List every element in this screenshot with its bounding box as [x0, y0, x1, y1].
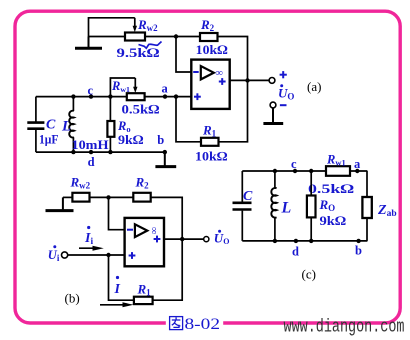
svg-text:www.diangon.com: www.diangon.com: [284, 317, 405, 337]
svg-text:d: d: [88, 155, 95, 169]
junction Ro bottom (c): [309, 239, 313, 243]
svg-text:I: I: [114, 282, 121, 297]
capacitor C: [27, 97, 44, 153]
caption 图8-02: [170, 316, 220, 333]
wire op-amp output: [230, 79, 270, 81]
svg-text:9kΩ: 9kΩ: [320, 213, 347, 228]
svg-text:b: b: [157, 133, 164, 147]
node c: [89, 94, 93, 98]
svg-text:c: c: [88, 84, 94, 98]
wire output (b): [164, 238, 203, 240]
op-amp U2: [125, 218, 164, 266]
wire bottom LC row: [36, 151, 165, 153]
svg-text:d: d: [292, 245, 299, 259]
resistor Ro: [107, 97, 114, 153]
wire to inverting input (b): [109, 197, 125, 229]
resistor Rw1 (c): [326, 166, 350, 176]
junction L top (c): [273, 169, 277, 173]
label -: [280, 104, 287, 106]
terminal uO (b): [204, 237, 209, 242]
resistor R1: [201, 138, 219, 146]
ground (output): [263, 108, 283, 124]
junction feedback/output: [245, 78, 249, 82]
terminal - output: [270, 102, 276, 108]
wire ui to + input: [68, 254, 125, 256]
potentiometer Rw1: [110, 78, 144, 100]
inductor L: [69, 97, 74, 153]
svg-text:10kΩ: 10kΩ: [195, 149, 228, 164]
wire feedback to R1: [219, 80, 248, 141]
svg-text:10kΩ: 10kΩ: [196, 42, 228, 57]
wire Rw1 to op-amp: [145, 96, 192, 98]
wire R2 to feedback vertical (b): [151, 197, 183, 239]
junction node a branch: [174, 94, 178, 98]
junction Ro bottom: [108, 150, 112, 154]
wire Rw2 to R2 (b): [90, 196, 134, 198]
junction output (b): [180, 237, 184, 241]
svg-text:10mH: 10mH: [72, 138, 109, 152]
junction L bottom (c): [273, 239, 277, 243]
svg-text:(a): (a): [307, 79, 321, 94]
impedance Zab box: [362, 171, 371, 241]
inductor L (c): [271, 171, 276, 241]
svg-text:9kΩ: 9kΩ: [118, 132, 144, 147]
resistor R1 (b): [134, 297, 153, 304]
svg-text:a: a: [162, 82, 169, 96]
junction L bottom: [71, 150, 75, 154]
wire Rw1 to corner (c): [350, 170, 367, 172]
svg-text:c: c: [291, 157, 297, 171]
node b: [163, 150, 167, 154]
node b (c): [356, 239, 360, 243]
label I: [114, 276, 121, 297]
capacitor C (c): [233, 171, 252, 241]
wire Rw2 to R2: [145, 36, 200, 38]
swash over Ω: [139, 42, 162, 49]
junction Ro top (c): [309, 169, 313, 173]
label Ii: [84, 226, 93, 247]
svg-text:C: C: [46, 118, 56, 133]
label ui: [48, 245, 60, 263]
svg-text:9.5kΩ: 9.5kΩ: [117, 45, 160, 60]
junction minus branch: [106, 195, 110, 199]
resistor Rw2 (b): [72, 193, 89, 202]
label +: [280, 71, 287, 78]
node d (c): [294, 239, 298, 243]
svg-text:C: C: [243, 189, 253, 204]
junction L top: [71, 94, 75, 98]
svg-text:L: L: [61, 119, 71, 135]
ground (top-left, Rw2 branch): [75, 37, 102, 49]
svg-text:(c): (c): [302, 267, 316, 282]
wire Rw2 row: [89, 36, 126, 38]
node c (c): [293, 169, 297, 173]
svg-text:8-02: 8-02: [185, 316, 221, 333]
junction Rw1 left: [108, 94, 112, 98]
junction + input branch: [106, 253, 110, 257]
label uO (a): [278, 84, 294, 101]
wire R2 to feedback node: [218, 37, 248, 81]
svg-text:L: L: [281, 200, 292, 217]
ground (b input branch): [46, 197, 74, 210]
current arrow Ii: [79, 246, 104, 251]
wire to inverting input: [176, 37, 191, 73]
current arrow I: [100, 302, 134, 307]
potentiometer Rw2: [89, 18, 146, 41]
wire + branch down to R1 (b): [109, 255, 134, 300]
terminal ui: [62, 252, 68, 258]
wire R1 to node a: [176, 97, 201, 142]
wire ground to Rw2: [63, 196, 73, 198]
resistor R2: [200, 33, 218, 41]
svg-text:b: b: [355, 244, 362, 258]
node a (c): [355, 169, 359, 173]
wire bottom row (c): [242, 240, 367, 242]
resistor R2 (b): [133, 193, 150, 202]
svg-text:0.5kΩ: 0.5kΩ: [308, 181, 354, 196]
svg-text:∞: ∞: [216, 68, 224, 79]
svg-text:1μF: 1μF: [39, 133, 59, 147]
svg-text:0.5kΩ: 0.5kΩ: [122, 102, 160, 117]
svg-text:∞: ∞: [148, 227, 159, 235]
op-amp U1: [191, 60, 229, 109]
node d: [89, 150, 93, 154]
junction: [174, 34, 178, 38]
terminal + output: [269, 78, 275, 84]
node a: [163, 94, 167, 98]
label uO (b): [214, 230, 230, 246]
resistor Ro (c): [307, 171, 316, 241]
wire R1 to feedback vertical (b): [153, 239, 183, 300]
svg-text:a: a: [354, 157, 361, 171]
wire top row (c): [242, 170, 326, 172]
svg-text:(b): (b): [65, 291, 80, 306]
wire top LC row: [36, 96, 127, 98]
ground (node b): [155, 152, 176, 167]
